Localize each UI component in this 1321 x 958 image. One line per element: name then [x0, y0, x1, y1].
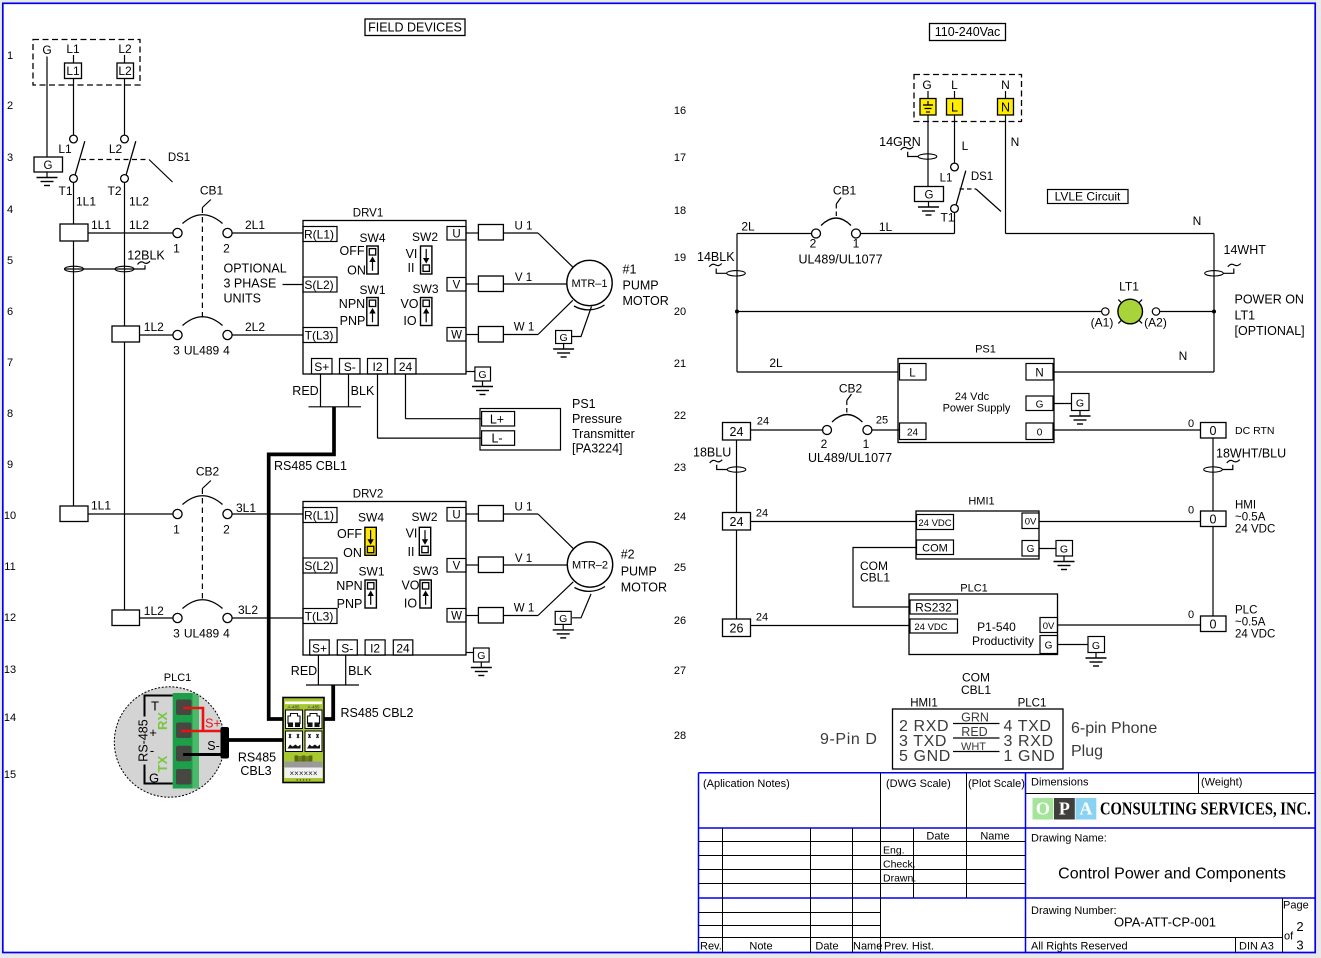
svg-text:OPTIONAL: OPTIONAL: [224, 262, 287, 276]
svg-text:II: II: [408, 261, 415, 275]
wire A1 left: [1101, 311, 1103, 313]
svg-text:PLC: PLC: [1235, 605, 1257, 617]
svg-text:T2: T2: [107, 184, 121, 198]
svg-text:Plug: Plug: [1071, 743, 1103, 760]
svg-text:S+: S+: [314, 360, 329, 374]
fuse U1 drv2: [466, 513, 478, 515]
svg-text:2: 2: [223, 523, 230, 537]
svg-text:L: L: [951, 101, 958, 115]
wire N to PS1: [1054, 371, 1214, 373]
svg-text:G: G: [44, 160, 53, 172]
svg-text:CBL3: CBL3: [240, 764, 271, 778]
svg-text:CB1: CB1: [833, 184, 857, 198]
svg-text:1: 1: [173, 242, 180, 256]
svg-text:15: 15: [4, 769, 16, 781]
svg-text:VO: VO: [400, 297, 418, 311]
svg-text:#1: #1: [623, 263, 637, 277]
svg-text:(Aplication Notes): (Aplication Notes): [703, 778, 790, 790]
RJ45 jacks row2: [286, 731, 323, 752]
DS1 label leader: [149, 160, 173, 183]
svg-text:LVLE Circuit: LVLE Circuit: [1055, 190, 1121, 204]
svg-text:Name: Name: [853, 941, 882, 953]
svg-text:SW4: SW4: [358, 511, 384, 525]
svg-text:L: L: [951, 78, 958, 92]
svg-text:2: 2: [1296, 919, 1303, 934]
svg-text:UNITS: UNITS: [224, 292, 262, 306]
svg-text:Pressure: Pressure: [572, 412, 622, 426]
DRV2 ground symbol: [471, 662, 492, 676]
terminal L (yellow): [947, 99, 963, 116]
svg-text:Dimensions: Dimensions: [1031, 777, 1089, 789]
ground terminal right: [915, 187, 944, 202]
drive DRV2 body: [303, 502, 466, 656]
svg-text:U 1: U 1: [515, 221, 533, 233]
wire G drop: [46, 57, 48, 158]
PLC1 ext ground terminal: [1088, 637, 1105, 653]
DRV1 switch SW2: [421, 246, 432, 274]
wire L2 to switch: [124, 55, 126, 63]
svg-text:5: 5: [7, 255, 13, 267]
svg-text:1L2: 1L2: [144, 604, 164, 618]
svg-text:RX: RX: [155, 712, 170, 730]
motor MTR-2: [567, 542, 612, 587]
svg-text:V: V: [453, 561, 461, 573]
svg-text:20: 20: [674, 306, 686, 318]
PS1 transmitter label: [572, 397, 635, 455]
svg-text:18: 18: [674, 205, 686, 217]
svg-text:L1: L1: [66, 64, 80, 78]
svg-text:[PA3224]: [PA3224]: [572, 441, 623, 455]
svg-text:0: 0: [1210, 618, 1217, 632]
svg-text:6: 6: [7, 306, 13, 318]
14BLK leader: [716, 269, 727, 274]
svg-text:3L2: 3L2: [238, 603, 258, 617]
svg-text:2L: 2L: [741, 220, 755, 234]
svg-text:1L1: 1L1: [76, 195, 96, 209]
supply dashed box right: [914, 75, 1022, 122]
RS485 CBL3 label: [238, 751, 276, 779]
svg-text:II: II: [408, 545, 415, 559]
MTR-1 ground terminal: [556, 331, 572, 345]
svg-text:0: 0: [1210, 424, 1217, 438]
svg-text:0: 0: [1188, 418, 1194, 430]
wire 26 to PLC1: [751, 625, 911, 627]
stub G: [927, 91, 929, 99]
OPTIONAL 3 PHASE UNITS note: [224, 262, 287, 306]
svg-text:CB2: CB2: [839, 382, 863, 396]
ground symbol right: [918, 202, 939, 216]
svg-text:DIN A3: DIN A3: [1239, 941, 1274, 953]
wire W1 drv2: [503, 615, 538, 617]
svg-text:T(L3): T(L3): [305, 329, 334, 343]
svg-text:LT1: LT1: [1119, 280, 1139, 294]
svg-text:SW1: SW1: [359, 283, 385, 297]
svg-text:Prev. Hist.: Prev. Hist.: [884, 941, 934, 953]
title block frame (blue): [699, 773, 1316, 953]
wire row6 to CB1: [140, 334, 173, 336]
svg-text:IO: IO: [403, 314, 416, 328]
svg-text:Drawing Number:: Drawing Number:: [1031, 905, 1117, 917]
wire 24 to CB2: [751, 429, 824, 431]
svg-text:CB1: CB1: [200, 184, 224, 198]
svg-text:3: 3: [7, 152, 13, 164]
svg-text:▪ ▪ ▪ ▪ ▪: ▪ ▪ ▪ ▪ ▪: [296, 778, 311, 784]
wire 0 bus down 2: [1212, 527, 1214, 617]
svg-text:110-240Vac: 110-240Vac: [935, 25, 1001, 39]
svg-text:2: 2: [810, 237, 817, 251]
svg-text:NPN: NPN: [336, 579, 362, 593]
svg-text:S(L2): S(L2): [304, 559, 333, 573]
svg-text:OFF: OFF: [337, 527, 362, 541]
wire 1L1 vertical: [73, 182, 75, 224]
HMI1 terminal 0V: [1022, 513, 1039, 529]
svg-text:MOTOR: MOTOR: [621, 581, 667, 595]
wire marker oval L2: [115, 266, 134, 272]
svg-text:W: W: [451, 330, 462, 342]
svg-text:3: 3: [1296, 938, 1303, 953]
svg-text:PLC1: PLC1: [164, 672, 192, 684]
svg-text:1L2: 1L2: [129, 195, 149, 209]
incoming supply dashed box: [33, 40, 140, 86]
wire I2 to L-: [377, 374, 379, 438]
svg-text:G: G: [560, 332, 568, 344]
svg-text:~0.5A: ~0.5A: [1235, 512, 1266, 524]
svg-text:11: 11: [4, 561, 15, 573]
LVLE Circuit label: [1048, 190, 1129, 204]
breaker CB2 pole 1-2: [173, 496, 232, 519]
svg-text:DRV1: DRV1: [353, 208, 383, 220]
PLC1 ext ground lead: [1058, 644, 1089, 646]
wire row12 to CB2: [140, 617, 173, 619]
svg-text:24 VDC: 24 VDC: [1235, 629, 1275, 641]
svg-text:L+: L+: [490, 412, 504, 426]
svg-text:2L1: 2L1: [245, 218, 265, 232]
RS-485 bracket: [145, 696, 173, 784]
HMI1 ext ground terminal: [1056, 541, 1073, 557]
PS1 terminal G: [1026, 396, 1053, 411]
svg-text:RED: RED: [961, 725, 987, 739]
CB2 right leader: [847, 394, 852, 401]
svg-text:(A2): (A2): [1144, 316, 1167, 330]
cable bundle bar: [221, 727, 230, 759]
wire 1L2 vertical: [124, 182, 126, 326]
svg-text:24 VDC: 24 VDC: [1235, 524, 1275, 536]
svg-text:14GRN: 14GRN: [879, 135, 921, 149]
CB2 right dashed: [846, 401, 848, 416]
CB1 right dashed: [835, 204, 837, 219]
svg-text:BLK: BLK: [348, 664, 372, 678]
tag box 0 PLC: [1201, 616, 1227, 632]
svg-text:25: 25: [876, 415, 888, 427]
wire 24 bus down: [736, 440, 738, 513]
breaker CB2 right: [823, 415, 872, 435]
fuse W1: [466, 334, 478, 336]
svg-text:14BLK: 14BLK: [697, 250, 735, 264]
svg-text:NPN: NPN: [339, 297, 365, 311]
svg-text:#2: #2: [621, 548, 635, 562]
breaker CB1 right: [812, 218, 861, 238]
svg-text:6-pin Phone: 6-pin Phone: [1071, 720, 1157, 737]
svg-text:DS1: DS1: [168, 152, 190, 164]
svg-text:17: 17: [674, 152, 686, 164]
S+ jumper (red): [181, 708, 222, 731]
MTR-1 ground lead: [572, 307, 592, 337]
svg-text:14: 14: [4, 712, 16, 724]
wire G right: [927, 115, 929, 187]
connector lower bands: [285, 754, 323, 784]
svg-text:HMI1: HMI1: [968, 496, 994, 508]
svg-text:G: G: [922, 78, 931, 92]
terminal block row10: [60, 506, 88, 522]
PLC1 port circle: [114, 687, 224, 797]
svg-text:SW1: SW1: [358, 565, 384, 579]
DRV1 terminal 24: [395, 359, 416, 375]
svg-text:L1: L1: [58, 142, 72, 156]
svg-text:O: O: [1036, 799, 1050, 819]
wire marker oval N: [1205, 271, 1224, 276]
terminal block row4: [60, 224, 88, 241]
svg-text:ON: ON: [343, 546, 362, 560]
svg-text:CB2: CB2: [196, 465, 220, 479]
MTR-2 ground symbol: [553, 624, 574, 638]
terminal L2: [117, 63, 134, 79]
cable RS485 CBL3: [229, 738, 284, 742]
wire left bus down: [736, 234, 738, 373]
svg-text:26: 26: [730, 622, 744, 636]
svg-text:S-: S-: [207, 739, 220, 753]
wire row4 to CB1: [88, 232, 173, 234]
svg-text:DC RTN: DC RTN: [1235, 425, 1274, 437]
svg-text:24 VDC: 24 VDC: [914, 622, 947, 633]
CB1 label leader: [202, 200, 211, 208]
svg-text:G: G: [1076, 398, 1084, 410]
svg-text:23: 23: [674, 462, 686, 474]
tag box 24 row24: [723, 513, 751, 531]
HMI1 body: [916, 511, 1039, 559]
wire HMI 0V to tag: [1039, 521, 1201, 523]
HMI1 ext ground lead: [1039, 548, 1056, 550]
HMI1 terminal G: [1022, 541, 1039, 557]
shield bar DRV2: [306, 684, 359, 686]
svg-text:N: N: [1001, 78, 1010, 92]
PLC1 terminal RS232: [910, 600, 958, 615]
svg-text:OFF: OFF: [340, 244, 365, 258]
svg-text:G: G: [1036, 400, 1044, 411]
svg-text:RED: RED: [291, 664, 317, 678]
shield bar DRV1: [309, 406, 362, 408]
svg-text:2: 2: [223, 242, 230, 256]
wire row18 mid: [861, 233, 955, 235]
svg-text:0: 0: [1210, 513, 1217, 527]
svg-text:0V: 0V: [1025, 517, 1037, 528]
svg-text:2: 2: [7, 100, 13, 112]
MTR-2 ground lead: [572, 594, 591, 618]
HMI1 terminal COM: [917, 540, 954, 555]
svg-text:5 GND: 5 GND: [899, 748, 951, 765]
svg-text:Page: Page: [1283, 900, 1309, 912]
wire 24 to HMI1: [751, 521, 917, 523]
DRV1 ground symbol: [472, 381, 493, 395]
svg-text:V 1: V 1: [515, 553, 532, 565]
svg-text:UL489/UL1077: UL489/UL1077: [808, 451, 892, 465]
wire 2L to PS1: [737, 371, 898, 373]
svg-text:Date: Date: [815, 941, 838, 953]
svg-text:2: 2: [821, 437, 828, 451]
svg-text:13: 13: [4, 664, 16, 676]
svg-text:N: N: [1193, 214, 1202, 228]
grid row numbers left 1-15: [4, 50, 16, 781]
svg-text:V 1: V 1: [515, 272, 532, 284]
DRV2 terminal T(L3): [303, 609, 337, 624]
svg-text:HMI: HMI: [1235, 500, 1256, 512]
svg-text:1: 1: [863, 437, 870, 451]
svg-text:CONSULTING SERVICES, INC.: CONSULTING SERVICES, INC.: [1100, 800, 1311, 818]
svg-text:RED: RED: [292, 384, 318, 398]
CB1 dashed link: [201, 208, 203, 320]
power supply PS1 body: [898, 359, 1054, 443]
wire 2L2: [232, 334, 304, 336]
svg-text:3: 3: [173, 627, 180, 641]
svg-text:PUMP: PUMP: [623, 279, 659, 293]
svg-text:U: U: [452, 229, 460, 241]
wire A2 to bus: [1160, 311, 1214, 313]
svg-text:27: 27: [674, 665, 686, 677]
PLC1 ground symbol: [1086, 653, 1107, 667]
svg-text:Drawing Name:: Drawing Name:: [1031, 833, 1107, 845]
svg-text:Control Power and Components: Control Power and Components: [1058, 866, 1286, 883]
svg-text:-: -: [150, 743, 154, 758]
svg-text:POWER ON: POWER ON: [1235, 293, 1304, 307]
svg-text:U: U: [452, 510, 460, 522]
svg-text:G: G: [477, 650, 485, 662]
svg-text:G: G: [478, 369, 486, 381]
svg-text:3L1: 3L1: [236, 501, 256, 515]
svg-text:PNP: PNP: [340, 314, 366, 328]
wire row10 to CB2: [88, 513, 173, 515]
CB1 right leader: [836, 198, 841, 205]
svg-text:T1: T1: [58, 184, 72, 198]
svg-text:(Weight): (Weight): [1201, 777, 1242, 789]
PLC1 terminal G: [1040, 636, 1058, 654]
ground symbol: [37, 172, 58, 186]
svg-text:T(L3): T(L3): [305, 610, 334, 624]
motor MTR-1: [567, 260, 612, 305]
svg-text:L2: L2: [118, 64, 132, 78]
svg-text:S-: S-: [344, 360, 356, 374]
wire S- BLK drv2: [345, 655, 347, 685]
svg-text:Eng.: Eng.: [883, 845, 905, 857]
svg-text:G: G: [42, 43, 51, 57]
MTR-2 frame arc: [575, 587, 606, 592]
svg-text:24: 24: [730, 515, 744, 529]
svg-text:A: A: [1079, 799, 1092, 819]
terminal L1: [65, 63, 82, 79]
wire S- BLK: [348, 374, 350, 407]
svg-text:U 1: U 1: [515, 502, 533, 514]
svg-text:GRN: GRN: [961, 711, 989, 725]
wire U1 drv2: [503, 513, 538, 515]
svg-text:4: 4: [7, 204, 13, 216]
wire GRN: [953, 711, 1000, 725]
svg-text:W: W: [451, 611, 462, 623]
svg-text:L1: L1: [66, 42, 80, 56]
svg-text:1L2: 1L2: [129, 218, 149, 232]
tag box 0 HMI: [1201, 511, 1227, 527]
svg-text:[OPTIONAL]: [OPTIONAL]: [1235, 324, 1305, 338]
svg-text:24 Vdc: 24 Vdc: [955, 391, 990, 403]
DRV1 terminal V: [447, 278, 466, 292]
DRV2 terminal S+: [310, 640, 330, 655]
svg-text:2L: 2L: [769, 356, 783, 370]
svg-text:N: N: [1179, 349, 1188, 363]
grid row numbers right 16-28: [674, 105, 686, 742]
svg-text:SW3: SW3: [412, 282, 438, 296]
svg-text:(DWG Scale): (DWG Scale): [886, 778, 951, 790]
svg-text:L2: L2: [118, 42, 132, 56]
svg-text:MTR–1: MTR–1: [571, 278, 607, 290]
svg-text:18BLU: 18BLU: [693, 446, 731, 460]
wire 24 to L+: [405, 374, 407, 419]
svg-text:Transmitter: Transmitter: [572, 427, 635, 441]
fuse W1 drv2: [466, 615, 478, 617]
MTR-2 ground terminal: [555, 611, 571, 625]
ground terminal G: [34, 157, 63, 172]
wire right bus down: [1213, 234, 1215, 373]
svg-text:28: 28: [674, 730, 686, 742]
svg-text:0: 0: [1188, 505, 1194, 517]
wire 3L1: [232, 513, 304, 515]
DRV1 terminal S+: [312, 359, 333, 375]
stub N: [1005, 91, 1007, 99]
PS1 ext ground terminal: [1072, 394, 1090, 411]
svg-text:24: 24: [756, 612, 768, 624]
svg-text:0V: 0V: [1043, 621, 1055, 632]
svg-text:12BLK: 12BLK: [127, 249, 165, 263]
DRV1 terminal I2: [368, 359, 388, 375]
DRV2 switch SW1: [365, 580, 376, 608]
svg-text:L1: L1: [940, 173, 953, 185]
wire N across: [1006, 233, 1215, 235]
svg-text:N: N: [1035, 368, 1043, 380]
DRV1 switch SW4: [367, 246, 378, 274]
svg-text:24: 24: [399, 360, 413, 374]
terminal block row6: [112, 326, 140, 342]
svg-text:14WHT: 14WHT: [1224, 243, 1267, 257]
terminal N (yellow): [998, 99, 1014, 116]
P1-540 Productivity text: [972, 620, 1034, 648]
FIELD DEVICES label: [365, 19, 465, 36]
DRV2 terminal V: [447, 559, 466, 573]
18WHT/BLU leader: [1222, 465, 1233, 470]
svg-text:24: 24: [396, 641, 410, 655]
indicator lamp LT1: [1118, 299, 1143, 324]
svg-text:21: 21: [674, 358, 686, 370]
svg-text:25: 25: [674, 562, 686, 574]
svg-text:RS485: RS485: [238, 751, 276, 765]
wire S+ RED drv2: [317, 655, 319, 685]
svg-text:(A1): (A1): [1091, 316, 1114, 330]
lamp terminal A2: [1152, 308, 1159, 315]
PS1 terminal 0: [1026, 423, 1053, 440]
svg-text:24: 24: [907, 428, 919, 439]
svg-text:24: 24: [730, 425, 744, 439]
PLC load note: [1235, 605, 1275, 641]
DRV1 terminal S-: [340, 359, 361, 375]
svg-text:1L2: 1L2: [144, 320, 164, 334]
svg-text:R(L1): R(L1): [304, 228, 334, 242]
svg-text:W 1: W 1: [514, 322, 534, 334]
svg-text:G: G: [1027, 544, 1035, 555]
